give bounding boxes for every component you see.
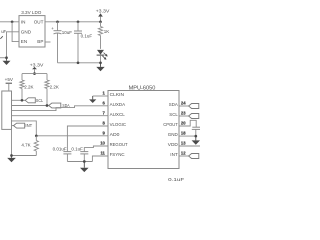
svg-text:0.01uF: 0.01uF: [53, 146, 67, 151]
svg-text:9: 9: [103, 130, 106, 135]
svg-text:INT: INT: [170, 152, 178, 158]
junction: 0.1uF bottom: [77, 61, 80, 64]
svg-text:13: 13: [181, 141, 186, 146]
ground (header): [11, 156, 13, 158]
svg-text:VLOGIC: VLOGIC: [110, 122, 127, 128]
junction: IN/EN tie: [11, 20, 14, 23]
ground (LDO): [6, 58, 8, 61]
svg-text:SDA: SDA: [62, 103, 70, 109]
junction: 0.1uF top: [77, 20, 80, 23]
svg-text:20: 20: [181, 121, 186, 126]
pin 24 SDA wire: [179, 105, 189, 107]
pin 12 INT wire: [179, 155, 189, 157]
svg-text:REGOUT: REGOUT: [110, 142, 128, 148]
pin 13 VDD wire: [179, 145, 200, 147]
svg-text:7: 7: [103, 110, 106, 115]
svg-text:12: 12: [181, 151, 186, 156]
capacitor C2 10uF polarized: [57, 22, 59, 31]
wire XCL to AUXCL pin 7: [12, 115, 109, 117]
pin 23 SCL wire: [179, 115, 189, 117]
svg-text:0.1uF: 0.1uF: [81, 34, 93, 39]
junction: pull-up rail: [33, 72, 36, 75]
junction: SCL pull-up: [21, 99, 24, 102]
svg-text:+3.3V: +3.3V: [30, 63, 45, 68]
wire BP stub: [45, 41, 51, 43]
junction: cap ground: [83, 160, 86, 163]
svg-text:6: 6: [103, 100, 106, 105]
svg-text:AUXCL: AUXCL: [110, 112, 126, 118]
junction: header ground: [10, 154, 13, 157]
wire connector ground: [12, 129, 37, 155]
ground (IC GND): [195, 136, 197, 140]
svg-text:11: 11: [100, 150, 105, 155]
ground (caps): [83, 162, 85, 168]
svg-text:OUT: OUT: [34, 20, 44, 25]
net flag (SDA pin): [189, 104, 199, 109]
net flag (SCL pin): [189, 114, 199, 119]
wire +3.3V output rail: [45, 21, 101, 23]
voltage regulator U1 3.3V LDO: [19, 16, 45, 47]
resistor R4 4.7K: [35, 136, 37, 141]
wire EN tied to IN: [12, 22, 19, 42]
ground (LED): [100, 63, 102, 67]
svg-text:0.1uF: 0.1uF: [71, 146, 83, 151]
wire LDO GND to ground: [7, 32, 20, 58]
svg-text:8: 8: [103, 120, 106, 125]
svg-text:+3.3V: +3.3V: [96, 8, 111, 13]
wire +5V input to LDO IN: [0, 21, 19, 23]
ground (CLKIN): [92, 96, 94, 99]
svg-text:AUXDA: AUXDA: [110, 102, 126, 108]
resistor R3 2.2K (SDA pull-up): [46, 74, 48, 80]
pin 10 REGOUT wire: [84, 146, 108, 152]
junction: 3.3V node: [99, 20, 102, 23]
svg-text:GND: GND: [168, 132, 178, 138]
junction: AD0 pull-down: [35, 134, 38, 137]
net flag SDA: [49, 103, 61, 108]
svg-text:CPOUT: CPOUT: [163, 122, 178, 128]
svg-text:3.3V LDO: 3.3V LDO: [21, 10, 42, 15]
svg-text:2.2K: 2.2K: [24, 84, 33, 89]
svg-text:INT: INT: [25, 123, 32, 129]
svg-text:24: 24: [181, 101, 186, 106]
svg-text:+5V: +5V: [5, 77, 14, 82]
wire pull-up rail: [22, 73, 47, 75]
svg-text:10uF: 10uF: [62, 30, 73, 35]
pin 18 GND wire: [179, 135, 196, 137]
op-amp U2 MPU-6050 IC body: [108, 91, 179, 169]
svg-text:SDA: SDA: [169, 102, 179, 108]
svg-text:VDD: VDD: [168, 142, 179, 148]
resistor R2 2.2K (SCL pull-up): [21, 74, 23, 80]
connector J1 (cut at edge): [2, 91, 12, 129]
junction: LDO ground node: [5, 56, 8, 59]
svg-text:+: +: [51, 26, 54, 31]
svg-text:SCL: SCL: [169, 112, 178, 118]
svg-text:uF: uF: [1, 29, 6, 34]
wire XDA to AUXDA pin 6: [12, 106, 109, 111]
svg-text:10: 10: [100, 140, 105, 145]
capacitor C4 0.01uF: [63, 151, 71, 153]
svg-text:4.7K: 4.7K: [21, 142, 30, 147]
pin 1 CLKIN wire: [93, 95, 108, 97]
net flag INT: [14, 123, 25, 128]
wire AD0 row: [12, 121, 109, 136]
svg-text:SCL: SCL: [36, 98, 43, 104]
resistor R1 1K: [100, 22, 102, 27]
pin 8 VLOGIC wire: [67, 126, 108, 152]
svg-text:2.2K: 2.2K: [50, 84, 59, 89]
svg-text:BP: BP: [37, 39, 43, 44]
svg-text:IN: IN: [21, 20, 26, 25]
svg-text:0.1uF: 0.1uF: [168, 177, 184, 182]
svg-text:CLKIN: CLKIN: [110, 92, 125, 98]
pin 20 CPOUT wire: [179, 120, 196, 127]
capacitor C5 0.1uF: [80, 151, 88, 153]
wire INT row: [12, 125, 14, 127]
junction: SDA pull-up: [46, 104, 49, 107]
wire cap ground rail: [67, 161, 92, 163]
capacitor C3 0.1uF: [77, 22, 79, 31]
svg-text:1: 1: [103, 90, 106, 95]
svg-text:23: 23: [181, 111, 186, 116]
LED D1: [97, 50, 104, 55]
junction: LED cathode/ground: [99, 61, 102, 64]
svg-text:MPU-6050: MPU-6050: [129, 85, 156, 91]
svg-text:AD0: AD0: [110, 132, 120, 138]
svg-text:18: 18: [181, 131, 186, 136]
net flag SCL: [25, 98, 35, 103]
svg-text:EN: EN: [21, 39, 27, 44]
svg-text:1K: 1K: [104, 29, 110, 34]
wire ground return rail: [58, 62, 101, 64]
capacitor C6 charge pump: [192, 126, 200, 128]
wire SCL row: [12, 99, 26, 101]
pin 11 FSYNC wire: [92, 156, 108, 162]
svg-text:GND: GND: [21, 30, 32, 35]
junction: IC ground: [194, 135, 197, 138]
net flag (INT pin): [189, 154, 199, 159]
svg-text:FSYNC: FSYNC: [110, 152, 125, 158]
junction: 10uF top: [56, 20, 59, 23]
wire SDA row: [12, 105, 49, 107]
